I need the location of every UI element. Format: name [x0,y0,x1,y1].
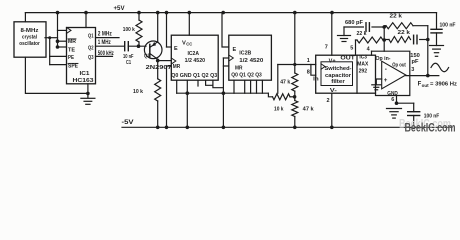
svg-text:MR: MR [68,39,76,45]
svg-text:IC2B: IC2B [239,51,251,57]
svg-text:capacitor: capacitor [325,73,352,79]
svg-text:22 k: 22 k [390,14,404,20]
svg-text:22 k: 22 k [398,30,412,36]
svg-text:100 nF: 100 nF [440,22,457,28]
svg-text:7: 7 [325,44,328,50]
svg-text:1 MHz: 1 MHz [98,40,111,46]
svg-text:150: 150 [410,53,420,59]
svg-text:8: 8 [307,69,310,75]
svg-text:E: E [174,46,178,52]
svg-text:BeekIC.com: BeekIC.com [405,120,456,134]
svg-text:In: In [313,76,319,82]
svg-text:680 pF: 680 pF [345,20,364,26]
svg-text:MAX: MAX [357,62,368,68]
svg-text:500 kHz: 500 kHz [98,51,114,57]
svg-text:out: out [422,83,430,88]
svg-text:-: - [385,66,387,73]
svg-text:22 k: 22 k [357,31,368,37]
svg-text:pF: pF [412,59,420,65]
svg-text:+5V: +5V [114,6,125,12]
svg-text:V-: V- [330,88,337,94]
svg-text:crystal: crystal [22,35,37,41]
svg-text:Q3: Q3 [88,55,94,61]
svg-text:2 MHz: 2 MHz [98,31,112,37]
svg-text:5: 5 [350,46,353,52]
svg-text:IC3: IC3 [359,54,367,60]
svg-text:HC163: HC163 [73,78,94,84]
svg-text:100 k: 100 k [123,27,136,33]
svg-text:MR: MR [235,65,243,71]
svg-text:10 k: 10 k [274,107,284,113]
svg-text:MR: MR [173,64,181,70]
svg-text:Q0 GND Q1 Q2 Q3: Q0 GND Q1 Q2 Q3 [171,73,217,79]
svg-text:Op out: Op out [392,62,406,68]
svg-text:47 k: 47 k [280,80,291,86]
svg-text:Q1: Q1 [88,34,94,40]
svg-text:E: E [233,47,237,53]
svg-text:CC: CC [186,42,192,47]
svg-text:-5V: -5V [122,120,134,126]
svg-text:10 k: 10 k [133,89,144,95]
svg-text:Switched-: Switched- [325,66,352,72]
svg-text:OUT: OUT [340,56,355,62]
svg-text:2: 2 [327,98,330,104]
svg-text:PE: PE [68,55,74,61]
svg-text:filter: filter [331,79,346,85]
svg-text:IC2A: IC2A [188,51,200,57]
svg-text:TE: TE [68,48,75,54]
svg-text:SPE: SPE [68,64,78,70]
svg-text:C1: C1 [126,60,131,66]
svg-text:= 3906 Hz: = 3906 Hz [430,82,457,88]
svg-text:1/2 4520: 1/2 4520 [239,58,263,64]
svg-text:+: + [384,77,388,84]
svg-text:V+: V+ [329,58,336,64]
svg-text:Q0 Q1 Q2 Q3: Q0 Q1 Q2 Q3 [231,73,261,79]
svg-text:292: 292 [359,68,368,74]
svg-text:Op in-: Op in- [376,56,391,62]
svg-text:6: 6 [391,97,394,103]
svg-text:Q2: Q2 [88,46,94,52]
svg-text:Q1: Q1 [144,54,150,60]
svg-text:47 k: 47 k [303,107,315,113]
svg-text:8-MHz: 8-MHz [21,28,39,34]
svg-text:3: 3 [411,67,414,73]
svg-text:oscillator: oscillator [19,41,40,47]
svg-text:IC1: IC1 [80,71,90,77]
svg-text:1: 1 [307,58,310,64]
svg-text:1/2 4520: 1/2 4520 [185,58,206,64]
